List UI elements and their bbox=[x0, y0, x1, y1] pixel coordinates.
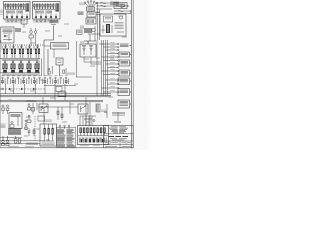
wire Q1 down bbox=[35, 33, 37, 46]
relay K1 label text bbox=[3, 29, 13, 31]
node arrow symbols on dashed run bbox=[9, 88, 35, 90]
node title block subtitle rows bbox=[110, 139, 127, 140]
wire run y137.5 bbox=[0, 137, 22, 139]
wire frame right inner border bbox=[130, 0, 132, 150]
wire long bus 4 bbox=[0, 101, 103, 103]
wire horizontal y14.5 bbox=[96, 14, 100, 16]
node main harness vertical bus bbox=[97, 40, 108, 96]
resistor network RN1 inside U1 bbox=[5, 3, 25, 9]
sensor B1 text bbox=[120, 80, 129, 82]
diode bank D1-D5 symbols bbox=[2, 44, 40, 58]
node M1 terminal circle bbox=[119, 16, 122, 19]
wire V1 down a bbox=[88, 11, 90, 12]
wire junction bus bbox=[21, 23, 27, 25]
wire top run y77 right bbox=[76, 76, 92, 78]
node arrows under U1 bbox=[7, 19, 16, 23]
wire band1 bottom rail bbox=[0, 57, 40, 59]
wire title block divider 1 bbox=[104, 133, 134, 135]
wire long bus 2 bbox=[0, 96, 111, 98]
wire R3 internal 2 bbox=[58, 62, 62, 64]
connector X1 bottom row dark cells bbox=[81, 139, 104, 142]
starter M1 box outline bbox=[100, 14, 126, 36]
node band1 caption bbox=[2, 60, 38, 61]
wire vertical x97 bbox=[97, 2, 99, 40]
relay K1 coil circle bbox=[4, 35, 6, 37]
node caption above K7 bbox=[44, 120, 52, 121]
wire K1 contact bbox=[8, 34, 10, 41]
node pin stubs under U2 bbox=[34, 19, 57, 21]
relay K8 cluster symbols bbox=[28, 103, 38, 114]
relay K6 label text bbox=[11, 115, 21, 117]
wire S4 feed bbox=[42, 97, 44, 104]
sensor B3 text bbox=[120, 102, 129, 106]
wire X1 mid divider bbox=[78, 135, 108, 137]
relay K3 label text bbox=[120, 44, 129, 46]
node caption under X1 b bbox=[93, 145, 100, 147]
wire x39 drop bbox=[38, 58, 40, 76]
wire dashed drop x35 bbox=[34, 116, 36, 141]
switch bank S1 row symbols bbox=[2, 77, 69, 84]
wire M1 internal b bbox=[111, 25, 113, 33]
sensor B2 text bbox=[120, 90, 129, 92]
node arrows under U2 bbox=[36, 19, 45, 23]
node left margin tiny text bbox=[0, 10, 3, 14]
wire frame left border bbox=[0, 40, 1, 148]
igniter U4 box outline bbox=[80, 44, 96, 57]
wire bottom run 2 bbox=[0, 143, 40, 145]
node caption under bottom line b bbox=[25, 145, 34, 147]
starter M1 motor winding dark bar bbox=[106, 24, 110, 33]
node legend text table block bbox=[57, 129, 75, 146]
connector X3 small box on bus bbox=[58, 92, 66, 96]
wire M1 internal a bbox=[102, 25, 104, 33]
wire run y107 bbox=[38, 106, 78, 108]
node center caption text bbox=[67, 73, 75, 74]
resistor R6 pair bbox=[57, 107, 63, 120]
wire into junction box bbox=[44, 45, 51, 47]
node label 7M-GTE dark text bbox=[50, 21, 59, 23]
wire band2 bottom rail bbox=[0, 72, 40, 74]
op-amp U2 engine ECU block B outline bbox=[33, 2, 61, 20]
wire igniter to starter bbox=[88, 33, 100, 35]
node notes text above title block bbox=[112, 113, 125, 116]
wire igniter drops bbox=[90, 26, 95, 41]
transistor Q2 symbol bbox=[82, 46, 86, 56]
wire ignition bottom run bbox=[84, 40, 96, 42]
node dense label block bbox=[15, 29, 21, 32]
node pin stubs under U1 bbox=[5, 19, 27, 21]
node U2 bottom pin marks bbox=[35, 16, 57, 18]
sensor B5 text bbox=[77, 31, 81, 32]
relay K10 text bbox=[121, 71, 129, 74]
distributor V1 cap terminal circles bbox=[84, 0, 97, 7]
distributor V1 text bbox=[88, 8, 94, 9]
capacitor block C2 dark cell inside U2 bbox=[56, 4, 59, 12]
wire frame bottom border bbox=[0, 147, 133, 149]
wire R2 down bbox=[30, 38, 32, 46]
diode bank D6-D10 symbols bbox=[3, 60, 40, 73]
wire Q2 down bbox=[83, 57, 85, 62]
node terminal right run 2 bbox=[130, 13, 131, 14]
node text labels under U2 bbox=[33, 21, 53, 22]
node caption under bottom line a bbox=[8, 145, 19, 147]
sensor B5 small box left bbox=[77, 30, 83, 35]
resistor R3 block bbox=[56, 58, 63, 65]
node caption under X1 a bbox=[80, 145, 89, 147]
wire drop x86 to connector bbox=[85, 97, 87, 126]
wire R3 internal bbox=[58, 59, 62, 61]
node dense label block below K6 bbox=[8, 129, 21, 135]
relay K5 text bbox=[121, 61, 129, 64]
node title block table cells bbox=[110, 141, 126, 148]
op-amp U1 engine ECU block A outline bbox=[4, 2, 31, 20]
transistor Q1 pair symbols bbox=[30, 31, 33, 34]
resistor R4 block mid bbox=[56, 87, 62, 92]
node scan noise texture overlay bbox=[0, 0, 134, 148]
node terminal right run 1 bbox=[130, 10, 131, 11]
relay K6 coil circle bbox=[11, 122, 13, 124]
diode D12 cluster bottom-left mid bbox=[25, 120, 27, 130]
relay K7 internal elements bbox=[42, 124, 54, 141]
wire K6 internal bbox=[17, 116, 19, 126]
node terminal circle above connector bbox=[93, 120, 95, 122]
wire Q3 to bus bbox=[91, 63, 101, 65]
relay K7 caption text bbox=[42, 143, 55, 144]
wire risers into connector X1 bbox=[80, 116, 92, 126]
fuse F2 row line bbox=[96, 5, 118, 7]
node caption above title block bbox=[114, 122, 121, 123]
node U1 bottom pin marks bbox=[6, 16, 28, 18]
wire R3 down bbox=[59, 65, 61, 76]
node U2 inner drop wires bbox=[36, 14, 56, 19]
wire M1 internal c bbox=[117, 31, 124, 33]
wire mid run y85.5 bbox=[44, 85, 76, 87]
wire x44 long drop bbox=[43, 46, 45, 76]
node text labels under U1 bbox=[5, 21, 25, 22]
wire Q1 lead 2 bbox=[35, 28, 37, 31]
switch bank S1 row labels bbox=[2, 75, 69, 77]
relay K4 box bbox=[119, 52, 130, 57]
relay K2 box bbox=[114, 3, 127, 9]
connector X1 bottom pin row bbox=[80, 138, 107, 143]
fuse F4 loop on right run bbox=[118, 10, 123, 12]
relay K7 box outline bbox=[40, 124, 57, 146]
node small symbols lower center bbox=[48, 66, 66, 75]
node caption mid drop bbox=[101, 110, 106, 111]
battery arrow A1 bbox=[121, 4, 126, 8]
node circle on dashed run bbox=[2, 88, 4, 90]
junction box J/B outline bbox=[51, 43, 69, 50]
node terminal circle y107 bbox=[41, 106, 43, 108]
wire label drop x53.5 bbox=[53, 26, 55, 41]
wire bottom run 1 bbox=[0, 140, 44, 142]
fuse F1 row lines bbox=[96, 2, 118, 4]
wire x41 drop bbox=[41, 58, 43, 76]
fuse block label text bbox=[110, 2, 119, 4]
relay K4 text bbox=[121, 53, 129, 54]
node bottom-left caption text bbox=[26, 143, 38, 144]
wire center drop x48 bbox=[47, 49, 49, 76]
resistor R7 cluster on bottom lines bbox=[15, 136, 21, 143]
relay K10 box bbox=[119, 70, 130, 76]
switch S4 contact bbox=[41, 106, 47, 111]
node scattered wire label texts bbox=[4, 12, 127, 140]
node terminal circles above legend table bbox=[59, 125, 70, 129]
node left margin text bottom bbox=[1, 124, 6, 128]
relay K9 inner box bbox=[104, 16, 113, 22]
wire U1 pin drop bbox=[20, 19, 22, 24]
wire V1 down b bbox=[91, 11, 93, 12]
node caption above connector bbox=[84, 119, 92, 120]
node igniter left label bbox=[80, 26, 84, 28]
camshaft sensor B4 box bbox=[87, 12, 96, 17]
relay K9 inner text bbox=[105, 18, 111, 19]
relay K6 tall box bbox=[9, 113, 22, 129]
junction box label text bbox=[53, 44, 67, 46]
wire horizontal y12.5 bbox=[96, 12, 100, 14]
relay K2 text bbox=[116, 4, 126, 6]
sensor row bottom-left bbox=[2, 105, 9, 114]
switch S2 small box bbox=[38, 116, 45, 121]
wire long drop x76.5 bbox=[76, 41, 78, 77]
wire drop x107 mid bbox=[106, 104, 108, 118]
wire main drop x44 bbox=[43, 40, 45, 46]
capacitor bank C2a hatch inside U2 bbox=[36, 11, 44, 14]
wire R2 link bbox=[30, 33, 32, 35]
wire right top run 1 bbox=[114, 10, 130, 12]
wire long bus 3 bbox=[0, 99, 103, 101]
wire right top run 2 bbox=[114, 12, 130, 14]
wire drop to K7 bbox=[43, 107, 45, 124]
node title block header text rows bbox=[109, 127, 128, 133]
fuse F3 row line bbox=[96, 8, 112, 10]
node bottom margin below frame bbox=[0, 148, 150, 150]
wire shielded dashed run bbox=[0, 88, 46, 90]
wire elbow y40 bbox=[44, 39, 54, 41]
wire Q2 to bus bbox=[84, 61, 101, 63]
node U1 inner drop wires bbox=[7, 14, 27, 19]
resistor network RN2 inside U2 bbox=[34, 3, 55, 9]
node band2 caption bbox=[2, 74, 38, 75]
wire stubs from right column boxes to frame bbox=[130, 45, 132, 104]
node circle at x105 mid bbox=[105, 111, 107, 113]
wire drop into title area bbox=[117, 112, 119, 121]
connector X1 big box outline bbox=[78, 126, 109, 145]
wire K1 internal bbox=[3, 32, 12, 34]
wire title block divider 2 bbox=[104, 140, 134, 142]
node igniter circle terminal bbox=[92, 28, 96, 32]
transistor Q3 symbol bbox=[89, 46, 93, 56]
node legend table outline bbox=[57, 127, 76, 147]
wire above connector bbox=[80, 115, 96, 117]
capacitor block C1 dark cell inside U1 bbox=[26, 4, 29, 12]
fuse F2 symbol loop bbox=[100, 5, 106, 7]
wire drop x90 to connector bbox=[89, 102, 91, 126]
wire title block divider 3 bbox=[104, 144, 134, 146]
relay K6 contact block bbox=[10, 125, 14, 128]
node title block model text bbox=[109, 136, 129, 138]
connector X1 top cell row bbox=[80, 128, 106, 136]
diode bank D1-D5 labels row bbox=[2, 44, 43, 46]
wire igniter down bbox=[87, 41, 89, 44]
wire vertical x99 bbox=[99, 9, 101, 40]
wire Q3 elbow bbox=[90, 62, 92, 64]
sensor B3 box bbox=[118, 100, 130, 108]
sensor B1 box bbox=[118, 78, 130, 85]
capacitor bank C2b hatch inside U2 bbox=[46, 11, 52, 14]
relay K1 box outline bbox=[1, 27, 14, 43]
wire into igniter U4 bbox=[87, 41, 89, 44]
wire vertical drops to buses bbox=[6, 84, 66, 100]
wire U2 internal rail bbox=[34, 8, 55, 10]
relay K5 box bbox=[119, 60, 130, 66]
ground symbols bottom-left bbox=[1, 136, 9, 145]
node ignition left dark label bbox=[78, 12, 84, 14]
switch S3 contact symbol bbox=[81, 106, 86, 112]
starter M1 label text bbox=[115, 23, 124, 29]
wire long bus 0 bbox=[0, 93, 111, 95]
resistor R2 body bbox=[29, 35, 34, 38]
node terminal circle top right bbox=[127, 5, 129, 7]
wire frame right outer border bbox=[132, 0, 134, 150]
connector X2 hatch bbox=[97, 105, 99, 112]
wire Q3 down bbox=[90, 57, 92, 62]
capacitor C4 small symbols bbox=[28, 128, 36, 136]
node title block cell texts bbox=[105, 143, 132, 147]
fuse F1 symbol loop bbox=[100, 2, 106, 4]
switch S3 box bbox=[78, 104, 88, 114]
node V1 left label bbox=[79, 3, 85, 4]
node title block outline bbox=[104, 126, 134, 148]
node cluster1 label bbox=[26, 100, 36, 102]
sensor B4 text bbox=[89, 13, 95, 14]
wire drop x70 bbox=[69, 102, 71, 114]
capacitor bank C1b hatch inside U1 bbox=[17, 11, 23, 14]
distributor V1 body bbox=[87, 7, 95, 11]
igniter U3 dark label block bbox=[84, 29, 92, 33]
wire to label bbox=[23, 24, 25, 28]
wire K1 internal 2 bbox=[3, 39, 12, 41]
wire from junction box down bbox=[53, 49, 55, 58]
wire U1 internal rail bbox=[5, 8, 25, 10]
ignition coil T1 box bbox=[86, 18, 96, 24]
ignition coil T1 winding hatch bbox=[88, 19, 94, 23]
wire U1 pin drop 2 bbox=[26, 19, 28, 24]
capacitor bank C1a hatch inside U1 bbox=[7, 11, 15, 14]
switch S4 box bbox=[39, 104, 48, 113]
wire Q1 lead bbox=[30, 28, 32, 31]
sensor B2 box bbox=[118, 89, 130, 96]
resistor R5 small symbols bottom-left bbox=[27, 115, 31, 123]
connector X2 hatched element bbox=[96, 104, 100, 112]
wire long bus 1 bbox=[0, 94, 111, 96]
wire bus taps with terminals bbox=[102, 43, 120, 93]
node label small sub text bbox=[51, 23, 56, 25]
